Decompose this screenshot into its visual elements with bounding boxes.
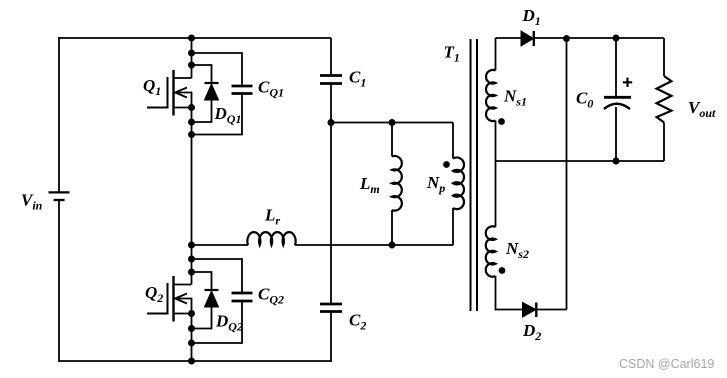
resistor Vout load	[657, 38, 672, 161]
junction DQ2 return	[188, 325, 195, 332]
diode D1	[496, 31, 534, 46]
wire top primary rail	[59, 37, 331, 39]
junction switch column / top rail	[188, 35, 195, 42]
battery Vin	[49, 192, 70, 200]
phase dot Ns1	[498, 118, 505, 125]
wire rectifier top rail	[534, 37, 664, 39]
inductor Lr	[192, 232, 296, 245]
svg-text:CSDN @Carl619: CSDN @Carl619	[619, 357, 714, 371]
wire bottom primary rail	[59, 360, 331, 362]
wire rectifier right column	[566, 38, 568, 310]
junction Q1 source	[188, 104, 195, 111]
wire secondary column (center tap)	[495, 121, 497, 228]
capacitor C1	[320, 38, 342, 84]
capacitor C0 (output, polarized)	[604, 38, 632, 161]
junction D1 cathode	[563, 35, 570, 42]
inductor Lm	[392, 123, 402, 246]
junction switch column / bottom rail	[188, 358, 195, 365]
capacitor C2	[320, 304, 342, 362]
wire resonant cap column (C1 to C2)	[330, 84, 332, 305]
winding Ns1 (secondary 1)	[486, 38, 495, 121]
wire switch column upper (drain Q1)	[191, 37, 193, 78]
diode DQ2 (body diode)	[192, 272, 219, 329]
junction CQ1 branch	[188, 50, 195, 57]
transformer core T1	[471, 39, 478, 311]
capacitor CQ1	[192, 53, 253, 135]
diode DQ1 (body diode)	[192, 65, 219, 122]
junction Lm bottom	[389, 242, 396, 249]
phase dot Np	[443, 161, 450, 168]
junction Lm top	[389, 119, 396, 126]
wire cap midpoint to winding tops	[331, 122, 453, 124]
wire switch column middle (Q1 source to Q2 drain)	[191, 108, 193, 285]
winding Np (transformer primary)	[453, 123, 464, 246]
junction CQ2 branch	[188, 256, 195, 263]
junction switch node	[188, 242, 195, 249]
transistor Q2 (N-MOSFET)	[147, 276, 192, 322]
transistor Q1 (N-MOSFET)	[147, 70, 192, 116]
wire left column upper (Vin +)	[58, 37, 60, 192]
junction DQ1 branch	[188, 62, 195, 69]
junction C0 bottom	[613, 158, 620, 165]
wire switch column lower (Q2 source to bottom rail)	[191, 314, 193, 363]
junction CQ2 return	[188, 340, 195, 347]
junction DQ2 branch	[188, 269, 195, 276]
junction CQ1 return	[188, 131, 195, 138]
junction cap midpoint	[328, 119, 335, 126]
junction Q2 source	[188, 310, 195, 317]
phase dot Ns2	[499, 267, 506, 274]
junction C0 top	[613, 35, 620, 42]
wire left column lower (Vin -)	[58, 200, 60, 362]
wire switch node to tank bottom	[295, 244, 453, 246]
junction DQ1 return	[188, 119, 195, 126]
wire center tap rail (output return)	[496, 160, 665, 162]
capacitor CQ2	[192, 259, 253, 343]
diode D2	[496, 303, 567, 318]
winding Ns2 (secondary 2)	[486, 226, 496, 310]
